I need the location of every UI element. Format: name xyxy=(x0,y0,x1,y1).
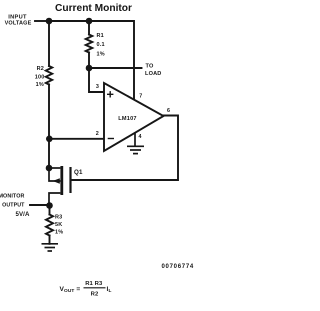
wire left rail upper (VIN to R2 top) xyxy=(48,21,50,66)
label MONITOR OUTPUT 5V/A xyxy=(0,194,30,218)
svg-text:VOUT =: VOUT = xyxy=(60,286,81,294)
wire top rail to pin7 drop xyxy=(49,21,134,99)
node pin2 junction xyxy=(46,136,53,143)
svg-text:MONITOR: MONITOR xyxy=(0,194,25,200)
svg-text:R1 R3: R1 R3 xyxy=(85,281,103,287)
svg-text:5V/A: 5V/A xyxy=(16,211,30,218)
svg-text:7: 7 xyxy=(139,94,142,100)
formula fraction bar xyxy=(84,287,106,289)
transistor Q1 xyxy=(49,166,80,206)
resistor R2 xyxy=(46,66,52,84)
svg-text:R3: R3 xyxy=(55,215,62,221)
svg-text:100: 100 xyxy=(35,75,45,81)
wire left rail mid (R2 bottom to Q1 source node) xyxy=(48,85,50,169)
label INPUT VOLTAGE xyxy=(5,15,32,27)
node R1 bottom / pin3 junction xyxy=(86,65,93,72)
ground at R3 xyxy=(42,244,59,251)
node monitor output junction xyxy=(46,202,53,209)
wire R1 bottom lead xyxy=(88,53,90,69)
svg-text:R2: R2 xyxy=(37,66,44,72)
svg-text:LOAD: LOAD xyxy=(145,71,161,77)
resistor R3 xyxy=(46,215,53,236)
svg-text:TO: TO xyxy=(146,64,154,70)
node VIN junction xyxy=(46,18,53,25)
svg-text:1%: 1% xyxy=(97,52,105,58)
wire to pin 2 xyxy=(49,138,104,140)
label R1 value xyxy=(97,33,105,58)
svg-text:VOLTAGE: VOLTAGE xyxy=(5,20,32,26)
svg-text:R2: R2 xyxy=(91,292,99,298)
svg-text:R1: R1 xyxy=(97,33,104,39)
label R3 value xyxy=(55,215,63,236)
Q1 arrow xyxy=(53,178,60,184)
svg-text:5K: 5K xyxy=(55,222,62,228)
ground at pin 4 xyxy=(127,146,144,153)
resistor R1 xyxy=(86,35,93,53)
svg-text:1%: 1% xyxy=(36,82,44,88)
svg-text:4: 4 xyxy=(139,134,142,140)
wire monitor node to R3 xyxy=(49,206,51,215)
op-amp pin 4 lead xyxy=(134,133,136,147)
wire R3 to ground xyxy=(49,236,51,244)
svg-text:IL: IL xyxy=(107,286,112,294)
op-amp U1 LM107 triangle xyxy=(104,83,164,151)
wire output loop to gate xyxy=(72,116,179,181)
wire monitor output stub xyxy=(30,204,50,206)
wire input stub xyxy=(35,20,49,22)
node R1 top junction xyxy=(86,18,93,25)
formula Vout = R1 R3 / R2 * IL xyxy=(60,281,112,298)
svg-text:3: 3 xyxy=(96,84,99,90)
label TO LOAD xyxy=(145,64,161,78)
node Q1 source junction xyxy=(46,165,53,172)
svg-text:Current Monitor: Current Monitor xyxy=(55,3,132,14)
svg-text:LM107: LM107 xyxy=(118,116,136,122)
wire R1 top lead xyxy=(88,21,90,35)
label R2 value xyxy=(35,66,45,88)
wire to load xyxy=(89,67,142,69)
wire to pin 3 xyxy=(89,68,104,92)
svg-text:6: 6 xyxy=(167,108,170,114)
svg-text:0.1: 0.1 xyxy=(97,42,105,48)
svg-text:2: 2 xyxy=(96,131,99,137)
svg-text:OUTPUT: OUTPUT xyxy=(2,202,25,208)
svg-text:Q1: Q1 xyxy=(74,169,83,176)
svg-text:1%: 1% xyxy=(55,230,63,236)
svg-text:00706774: 00706774 xyxy=(162,264,194,270)
